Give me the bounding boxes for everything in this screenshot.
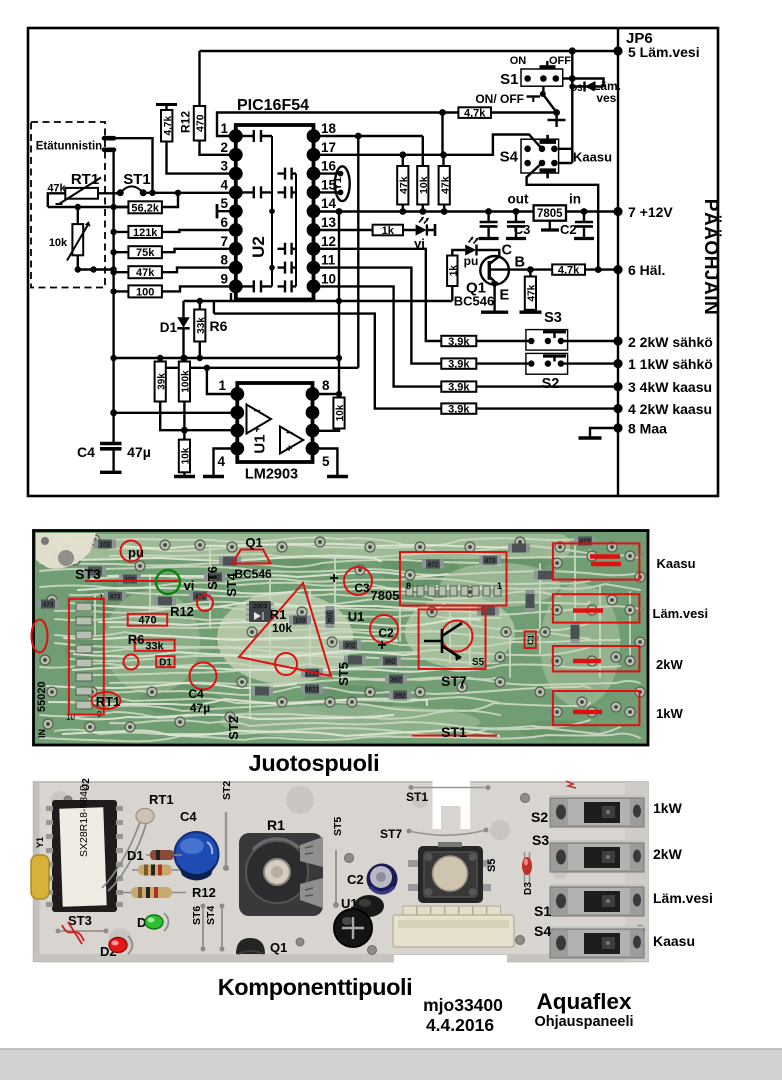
svg-text:392: 392	[395, 693, 406, 700]
resistor 3,9k row1	[441, 358, 476, 368]
svg-text:55020: 55020	[36, 681, 48, 712]
svg-text:8: 8	[220, 253, 228, 268]
svg-text:4.4.2016: 4.4.2016	[426, 1015, 494, 1035]
op-amp U1 triangle a	[247, 405, 272, 434]
svg-text:10: 10	[321, 271, 336, 286]
resistor R6 33k	[194, 310, 205, 342]
svg-text:4 2kW kaasu: 4 2kW kaasu	[628, 401, 712, 417]
svg-text:S4: S4	[534, 923, 551, 939]
resistor R12	[120, 892, 186, 894]
svg-text:pu: pu	[128, 545, 144, 560]
pushbutton S3	[526, 330, 568, 351]
svg-text:R12: R12	[179, 111, 193, 133]
wire 4,7k to pin3	[167, 142, 236, 174]
LED pu	[465, 245, 476, 256]
resistor R12 470	[194, 106, 205, 141]
wire rows to bus	[476, 341, 618, 409]
annotation 33k red box	[135, 640, 175, 651]
svg-text:ON/ OFF: ON/ OFF	[475, 92, 524, 106]
resistor 39k	[155, 362, 166, 402]
svg-text:3,9k: 3,9k	[448, 336, 470, 348]
wire 56,2k left lead on rail line	[114, 207, 129, 232]
svg-text:+: +	[286, 443, 292, 455]
LED D3	[525, 852, 530, 884]
wire pin11 to row1	[314, 268, 442, 364]
svg-text:C3: C3	[514, 222, 531, 237]
resistor 47k pullup a	[397, 166, 408, 205]
svg-text:392: 392	[385, 659, 396, 666]
annotation RT1 red ellipse	[92, 692, 121, 709]
svg-text:472: 472	[428, 562, 439, 569]
solder-side PCB photo Juotospuoli	[34, 531, 649, 746]
svg-text:47µ: 47µ	[127, 444, 151, 460]
svg-text:392: 392	[391, 677, 402, 684]
U2 internal caps left rows 1 4 9	[243, 130, 273, 142]
thermistor RT1	[102, 822, 146, 891]
svg-text:R6: R6	[128, 632, 145, 647]
svg-text:5 Läm.vesi: 5 Läm.vesi	[628, 44, 700, 60]
annotation C3 red circle	[344, 567, 372, 595]
annotation red circle pu	[32, 541, 640, 736]
white slot cutout	[429, 780, 470, 829]
svg-text:10k: 10k	[335, 404, 346, 421]
svg-text:Kaasu: Kaasu	[657, 556, 696, 571]
pcb shading	[85, 580, 155, 620]
svg-text:S1: S1	[534, 903, 551, 919]
svg-text:47k: 47k	[439, 176, 451, 194]
svg-text:ST5: ST5	[332, 817, 344, 836]
resistor 1k vi	[373, 225, 403, 236]
right side labels for relays	[653, 556, 709, 721]
annotation C2 red circle	[370, 615, 398, 643]
rocker switch S3 row	[550, 840, 644, 872]
crystal Y1 yellow	[31, 855, 49, 899]
svg-text:33k: 33k	[196, 317, 207, 334]
svg-text:47µ: 47µ	[190, 701, 210, 715]
switch designators	[531, 809, 551, 939]
svg-text:R1: R1	[270, 607, 287, 622]
svg-text:D3: D3	[523, 882, 534, 895]
svg-text:100: 100	[136, 286, 154, 298]
switch S1	[521, 69, 563, 86]
svg-text:S2: S2	[542, 376, 560, 392]
svg-text:SX28R18-9842: SX28R18-9842	[78, 785, 90, 857]
svg-text:473: 473	[485, 558, 496, 565]
svg-text:PIC16F54: PIC16F54	[237, 97, 309, 114]
svg-text:OFF: OFF	[549, 55, 571, 67]
annotation 470 red box	[128, 614, 168, 626]
resistor 10k lower	[179, 440, 190, 473]
wire pin13 to LED vi	[314, 229, 434, 231]
annotation red contact bars	[573, 557, 621, 713]
ground U1 pin4	[214, 449, 231, 477]
IC U1 LM2903	[237, 383, 312, 462]
svg-text:C4: C4	[188, 687, 204, 701]
connector stub upper	[104, 136, 114, 141]
JP6 pin 8 Maa	[613, 423, 622, 432]
U2 pin numbers	[220, 121, 336, 286]
svg-text:ST3: ST3	[68, 913, 92, 928]
wire S4 bottom to Hal net	[527, 163, 599, 270]
JP6 connector bus line	[617, 28, 619, 496]
resistor 47k pullup c	[439, 166, 450, 205]
rail junction dots	[336, 208, 343, 215]
U2 internal column B	[295, 174, 297, 287]
wire line B to row4	[214, 301, 441, 409]
svg-text:11: 11	[321, 253, 336, 268]
svg-text:RT1: RT1	[149, 792, 174, 807]
wire top net pin5	[200, 51, 619, 106]
svg-text:2903: 2903	[253, 603, 268, 610]
svg-text:2: 2	[220, 140, 228, 155]
component-side PCB photo Komponenttipuoli	[31, 778, 648, 978]
resistor 10k feedback	[333, 398, 344, 429]
svg-text:ST1: ST1	[406, 790, 428, 804]
svg-text:100k: 100k	[181, 370, 192, 393]
annotation IC red box	[400, 552, 507, 606]
svg-text:Aquaflex: Aquaflex	[536, 989, 632, 1014]
wire pin18 row	[314, 135, 423, 137]
svg-text:14: 14	[321, 196, 337, 211]
svg-text:39k: 39k	[156, 373, 167, 390]
svg-text:4,7k: 4,7k	[558, 264, 580, 276]
resistor 4,7k Hal	[552, 264, 585, 274]
svg-text:IN: IN	[37, 729, 47, 738]
annotation ST3 red line	[85, 580, 180, 582]
red squiggle top	[566, 781, 576, 788]
wire pin18 vertical v2	[160, 136, 358, 394]
svg-text:473: 473	[43, 602, 54, 609]
IC U2 DIP package	[52, 800, 117, 912]
svg-text:ST2: ST2	[221, 781, 233, 800]
svg-text:S5: S5	[472, 657, 485, 668]
wire left rail	[112, 150, 114, 413]
svg-text:mjo33400: mjo33400	[423, 995, 503, 1015]
capacitor C4 47u	[112, 413, 114, 472]
diode D3	[585, 82, 595, 92]
wire S4 right contacts	[559, 149, 573, 163]
annotation red circles small	[197, 595, 213, 611]
svg-text:3,9k: 3,9k	[448, 358, 470, 370]
svg-text:S2: S2	[531, 809, 548, 825]
U2 internal column A	[271, 136, 273, 286]
svg-text:9: 9	[220, 271, 228, 286]
wire ST1 to pin4	[143, 192, 235, 194]
svg-text:1kW: 1kW	[653, 800, 683, 816]
svg-text:S3: S3	[532, 832, 549, 848]
svg-text:6: 6	[220, 215, 228, 230]
svg-text:ST1: ST1	[123, 171, 151, 188]
svg-text:Kaasu: Kaasu	[573, 150, 612, 165]
board texture speckles	[51, 786, 569, 952]
pcb traces	[70, 538, 590, 547]
svg-text:33k: 33k	[145, 641, 164, 653]
mounting vias	[62, 794, 645, 955]
annotation green circle vi	[156, 570, 180, 594]
svg-text:+: +	[254, 424, 260, 436]
svg-text:BC546: BC546	[234, 567, 272, 581]
schematic outer border frame	[28, 28, 718, 496]
svg-text:302: 302	[345, 643, 356, 650]
wire line A pin9 net	[184, 293, 453, 301]
svg-text:D1: D1	[159, 658, 172, 669]
svg-text:18: 18	[321, 121, 337, 136]
svg-text:vesi: vesi	[596, 91, 619, 105]
crystal Y1	[314, 174, 341, 193]
svg-text:C4: C4	[77, 444, 95, 460]
wire to U1 pin3	[184, 429, 230, 431]
svg-text:C1: C1	[527, 634, 536, 645]
svg-text:Kaasu: Kaasu	[653, 933, 695, 949]
svg-text:B: B	[515, 255, 525, 271]
svg-text:12: 12	[321, 234, 336, 249]
svg-text:C2: C2	[560, 222, 577, 237]
U2 internal caps right rows	[278, 168, 297, 180]
regulator 7805	[534, 205, 566, 220]
svg-text:104: 104	[325, 612, 332, 623]
svg-text:+: +	[377, 637, 386, 654]
svg-text:10k: 10k	[181, 447, 192, 464]
resistor 3,9k row3	[441, 381, 476, 391]
svg-text:47k: 47k	[136, 267, 155, 279]
resistor 10k pullup b	[417, 166, 428, 205]
JP6 pin 5	[613, 46, 622, 55]
svg-text:U2: U2	[249, 236, 268, 258]
svg-text:C4: C4	[180, 809, 197, 824]
svg-text:1: 1	[497, 581, 502, 591]
U2 pin dots left 1-9	[229, 129, 320, 293]
annotation C1 red box	[525, 631, 536, 648]
svg-text:4,7k: 4,7k	[464, 107, 486, 119]
svg-text:1kW: 1kW	[656, 706, 683, 721]
svg-text:ST7: ST7	[380, 827, 402, 841]
svg-text:ST2: ST2	[226, 716, 241, 740]
svg-text:S1: S1	[500, 71, 518, 88]
svg-text:ST6: ST6	[191, 906, 203, 925]
resistor 3,9k row4	[441, 403, 476, 413]
svg-text:C: C	[502, 243, 513, 259]
svg-text:4,7k: 4,7k	[163, 116, 174, 136]
capacitor C2	[583, 212, 585, 239]
svg-text:U1: U1	[252, 434, 269, 453]
pushbutton S2	[526, 353, 568, 374]
svg-text:Q1: Q1	[245, 535, 262, 550]
wire pin1 to 4,7k	[217, 113, 458, 137]
ground for Maa	[590, 428, 618, 437]
wire pin12 to row2	[314, 249, 442, 341]
svg-text:103: 103	[295, 618, 306, 625]
JP6 pin 2	[613, 336, 622, 345]
resistor 56,2k	[128, 201, 162, 213]
capacitor unnamed at rail	[479, 212, 594, 239]
resistor 4,7k vertical pullup pin3	[156, 103, 177, 106]
svg-text:1: 1	[220, 121, 228, 136]
svg-text:2kW: 2kW	[653, 846, 683, 862]
op-amp U1 triangle b	[280, 427, 303, 454]
wire D1 R6 bottoms	[114, 357, 339, 359]
svg-text:E: E	[500, 288, 510, 304]
svg-text:47k: 47k	[398, 176, 410, 194]
rocker switch S2 row	[550, 795, 644, 827]
svg-text:7 +12V: 7 +12V	[628, 204, 673, 220]
svg-text:7805: 7805	[371, 588, 400, 603]
switch function labels	[653, 800, 713, 949]
photo black texts	[75, 535, 502, 740]
svg-text:R12: R12	[192, 885, 216, 900]
svg-text:10k: 10k	[49, 237, 68, 249]
svg-text:10k: 10k	[272, 621, 292, 635]
svg-text:S3: S3	[544, 310, 562, 326]
svg-text:Y1: Y1	[35, 837, 45, 848]
resistor 121k	[128, 226, 162, 238]
Etatunnistin dashed sensor box	[31, 122, 105, 288]
wire RT1 left to pot top	[48, 193, 129, 207]
svg-text:U1: U1	[348, 609, 365, 624]
annotation S5 red box	[419, 609, 486, 669]
annotation left connector red box	[69, 599, 104, 715]
svg-text:7: 7	[220, 234, 228, 249]
svg-text:+: +	[329, 570, 338, 587]
wire LED to Q1 collector	[477, 250, 500, 256]
svg-text:Juotospuoli: Juotospuoli	[249, 750, 380, 776]
wire D3 vertical net	[572, 51, 603, 163]
diode D1	[182, 301, 184, 358]
ground Q1 emitter	[481, 311, 508, 314]
svg-text:Q1: Q1	[270, 940, 287, 955]
ground U1 pin5	[319, 449, 337, 477]
svg-text:121k: 121k	[133, 227, 158, 239]
annotation Y1 red ellipse	[32, 620, 48, 653]
pcb corner piece	[36, 533, 96, 569]
resistor 75k	[128, 246, 162, 258]
svg-text:ST7: ST7	[441, 673, 467, 689]
svg-text:ST1: ST1	[441, 724, 467, 740]
resistor 47k emitter	[529, 270, 531, 312]
JP6 pin 4	[613, 404, 622, 413]
switch S4	[521, 139, 559, 173]
svg-text:47k: 47k	[527, 284, 538, 301]
svg-text:8: 8	[322, 378, 330, 393]
wire upper stub to ST1	[114, 138, 153, 193]
switch ON/OFF lever	[543, 94, 557, 119]
annotation relay red boxes	[553, 543, 640, 579]
svg-text:10k: 10k	[418, 176, 430, 194]
svg-text:7805: 7805	[537, 208, 563, 220]
svg-text:1 1kW sähkö: 1 1kW sähkö	[628, 356, 713, 372]
resistor 3,9k row2	[441, 336, 476, 346]
svg-text:3: 3	[220, 159, 228, 174]
svg-text:13: 13	[321, 215, 337, 230]
svg-text:R12: R12	[170, 604, 194, 619]
svg-text:D1: D1	[160, 320, 178, 335]
rocker switch S1 row	[550, 884, 644, 916]
svg-text:Läm.vesi: Läm.vesi	[653, 606, 709, 621]
svg-text:pu: pu	[464, 254, 479, 268]
pcb IC solder pads region	[406, 586, 501, 596]
svg-text:6 Häl.: 6 Häl.	[628, 262, 665, 278]
LED vi	[416, 224, 427, 235]
svg-text:ST4: ST4	[205, 906, 217, 925]
svg-text:C2: C2	[347, 872, 364, 887]
annotation S5 transistor sketch	[424, 623, 462, 658]
resistor 4,7k horizontal	[458, 107, 491, 118]
svg-text:2 2kW sähkö: 2 2kW sähkö	[628, 334, 713, 350]
wire pin17 to S4	[314, 135, 543, 155]
pcb left edge connector pads	[76, 603, 92, 709]
connector white	[393, 906, 514, 978]
svg-text:D3: D3	[570, 83, 582, 94]
svg-text:S4: S4	[500, 149, 519, 166]
resistor 1k Q1 base	[447, 256, 457, 287]
JP6 pin 6	[613, 265, 622, 274]
svg-text:−: −	[254, 404, 261, 418]
annotation R1 red triangle	[239, 583, 331, 676]
svg-text:16: 16	[321, 159, 337, 174]
svg-text:RT1: RT1	[71, 171, 99, 188]
pcb smd components	[94, 540, 116, 549]
svg-text:in: in	[569, 192, 581, 207]
wire U1 pin8 to 10k	[319, 393, 339, 395]
svg-text:Ohjauspaneeli: Ohjauspaneeli	[534, 1014, 633, 1030]
svg-text:473: 473	[580, 539, 591, 546]
svg-text:Y1: Y1	[332, 177, 344, 190]
svg-text:3 4kW kaasu: 3 4kW kaasu	[628, 379, 712, 395]
bottom scanner band	[0, 1048, 782, 1080]
svg-text:R1: R1	[267, 817, 285, 833]
svg-text:8 Maa: 8 Maa	[628, 421, 667, 437]
svg-text:3,9k: 3,9k	[448, 381, 470, 393]
svg-text:470: 470	[138, 615, 156, 627]
tactile switch S5	[418, 846, 483, 903]
wire RT1 right to ST1	[98, 192, 120, 194]
capacitor C3	[515, 212, 517, 239]
U2 pin dots right 18-10	[307, 129, 321, 143]
JP6 pin 1	[613, 359, 622, 368]
rocker switch S4 row	[550, 926, 644, 958]
junction dots top area	[569, 47, 576, 54]
pcb SOIC 2903	[246, 601, 274, 622]
pcb pads	[40, 535, 645, 732]
svg-text:4: 4	[220, 177, 228, 192]
svg-text:1: 1	[218, 378, 226, 393]
svg-text:2kW: 2kW	[656, 657, 683, 672]
svg-text:U2: U2	[81, 778, 92, 791]
svg-text:out: out	[508, 192, 529, 207]
svg-text:ON: ON	[510, 55, 527, 67]
svg-text:Läm.vesi: Läm.vesi	[653, 890, 713, 906]
svg-text:C3: C3	[354, 581, 370, 595]
wire pot bottom	[78, 268, 114, 270]
svg-text:LM2903: LM2903	[245, 467, 298, 483]
transistor Q1 BC546	[480, 256, 509, 285]
svg-text:Etätunnistin: Etätunnistin	[36, 141, 102, 153]
svg-text:56,2k: 56,2k	[131, 202, 159, 214]
wire 4,7k to switch	[491, 111, 557, 113]
svg-text:Komponenttipuoli: Komponenttipuoli	[218, 974, 413, 1000]
svg-text:5622: 5622	[305, 687, 320, 694]
connector stub lower	[104, 148, 114, 153]
wire base to Hal	[530, 268, 618, 270]
JP6 pin 3	[613, 382, 622, 391]
wire pin10 to row3	[314, 286, 442, 386]
resistor 100k	[179, 362, 190, 402]
svg-text:1k: 1k	[448, 265, 459, 277]
svg-text:5: 5	[322, 454, 330, 469]
svg-text:S5: S5	[486, 859, 498, 872]
svg-text:R6: R6	[210, 318, 228, 334]
resistor 47k row	[128, 266, 162, 278]
annotation ST1 red line	[412, 735, 497, 737]
